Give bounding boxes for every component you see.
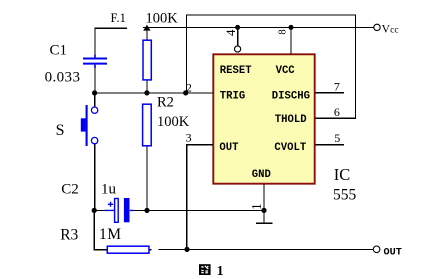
wire bottom rail [149,248,373,250]
capacitor C2 [105,198,134,222]
svg-text:TRIG: TRIG [220,90,245,102]
label 0.033 (C1 value) [45,69,81,85]
pin label VCC [276,65,296,77]
svg-text:6: 6 [334,105,340,119]
pin label TRIG [220,90,245,102]
pin label GND [252,169,271,181]
pin number 1 (rotated) [249,203,264,210]
ground symbol [256,222,272,224]
label F.1 [111,11,126,25]
svg-text:OUT: OUT [384,247,402,258]
resistor R2 [143,104,152,146]
wire C1 top to rail [95,28,127,56]
junction dot node 2 [183,90,188,95]
label OUT terminal [384,247,402,258]
terminal OUT [373,246,380,253]
wire Vcc rail [143,26,374,28]
wire C1 bottom lead [94,68,96,93]
label 1M (R3 value) [99,226,122,243]
junction dot node B left [92,208,97,213]
pin number 6 [334,105,340,119]
junction dot pin 4 [235,25,240,30]
pin number 2 [186,81,192,95]
label S [56,122,65,139]
svg-text:5: 5 [334,131,340,145]
svg-text:R3: R3 [60,226,78,243]
svg-text:GND: GND [252,169,271,181]
junction dot pin 8 [289,25,294,30]
label R2 [157,94,174,110]
switch S [81,105,98,146]
label 100K (R1 value) [146,11,179,27]
wire GND pin drop [263,184,265,223]
pin label DISCHG [272,90,310,102]
junction arrow at R1 top [143,25,150,31]
svg-text:100K: 100K [157,114,190,130]
pin number 8 (rotated) [278,29,289,34]
junction dot GND net [261,208,266,213]
svg-text:F.1: F.1 [111,11,126,25]
svg-text:8: 8 [278,29,289,34]
resistor R3 [107,246,149,253]
label IC [334,165,351,184]
svg-text:Vcc: Vcc [382,21,399,35]
wire pin 4 drop [237,27,239,46]
pin label CVOLT [274,142,306,154]
label 100K (R2 value) [157,114,190,130]
label 555 [333,187,357,204]
label C1 [50,43,68,59]
wire R2 bottom lead [146,146,148,211]
svg-text:7: 7 [334,79,340,93]
svg-text:1u: 1u [101,182,117,198]
pin number 4 (rotated) [223,29,238,36]
pin label OUT [219,142,239,154]
junction dot node A left (C1/switch) [92,90,97,95]
reset bubble pin 4 [235,46,241,52]
wire pin 7 stub [315,92,344,94]
junction dot R1-R2 [144,90,149,95]
pin number 5 [334,131,340,145]
svg-text:1: 1 [217,264,224,279]
pin number 3 [186,131,192,145]
figure label 图 1 [199,264,224,279]
svg-text:S: S [56,122,65,139]
svg-text:VCC: VCC [276,65,296,77]
svg-text:THOLD: THOLD [275,114,307,126]
svg-text:555: 555 [333,187,357,204]
svg-text:C2: C2 [61,182,79,198]
label 1u (C2 value) [101,182,117,198]
svg-text:IC: IC [334,165,351,184]
wire GND row node B [95,209,264,211]
capacitor C1 [83,55,107,69]
terminal Vcc [374,24,380,30]
svg-text:100K: 100K [146,11,179,27]
svg-text:RESET: RESET [220,65,252,77]
svg-text:CVOLT: CVOLT [274,142,306,154]
pin number 7 [334,79,340,93]
pin label THOLD [275,114,307,126]
wire switch bottom to node B [94,144,96,211]
wire TRIG row node A [95,92,213,94]
wire switch top lead [94,93,96,107]
svg-text:2: 2 [186,81,192,95]
wire pin 8 drop [290,27,292,54]
svg-text:1M: 1M [99,226,122,243]
wire OUT pin to bottom rail [187,145,213,250]
pin label RESET [220,65,252,77]
svg-text:DISCHG: DISCHG [272,90,310,102]
label Vcc [382,21,399,35]
wire TRIG-THOLD link (node 2 to pin 6) [187,15,356,118]
svg-text:4: 4 [223,29,238,36]
svg-text:1: 1 [249,203,264,210]
svg-text:OUT: OUT [219,142,239,154]
wire pin 5 stub [315,144,344,146]
wire resistor R1 leads [146,29,148,93]
junction dot R2 bottom [144,208,149,213]
IC U1 555 body [213,54,314,183]
wire R3 left leg [94,210,107,249]
junction dot OUT net [184,247,189,252]
svg-text:R2: R2 [157,94,174,110]
svg-text:0.033: 0.033 [45,69,81,85]
svg-text:C1: C1 [50,43,68,59]
resistor R1 [143,40,151,80]
svg-text:3: 3 [186,131,192,145]
label C2 [61,182,79,198]
label R3 [60,226,78,243]
